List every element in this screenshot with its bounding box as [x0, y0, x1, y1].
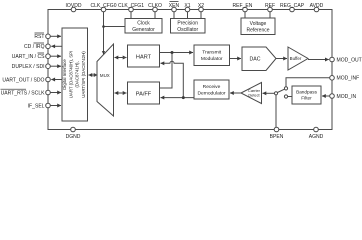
wire CLK_CFG1 stub [130, 12, 132, 19]
amp Buffer [288, 47, 308, 70]
wire MOD_IN to Bandpass Filter [322, 95, 330, 97]
svg-text:IOVDD: IOVDD [66, 3, 82, 9]
svg-text:UART_IN / CS: UART_IN / CS [12, 54, 45, 60]
svg-text:XEN: XEN [169, 3, 180, 9]
svg-text:IF_SEL: IF_SEL [28, 103, 45, 109]
wire X2 stub [200, 12, 202, 19]
svg-text:UART_OUT / SDO: UART_OUT / SDO [2, 77, 44, 83]
wire Carrier Detect to Receive Demodulator [230, 92, 241, 94]
pin IF_SEL [46, 103, 51, 108]
pin AGND [314, 127, 319, 132]
wire RST input [50, 35, 61, 37]
wire UART_OUT/SDO output [51, 79, 62, 81]
block PA/FF modem [128, 82, 160, 104]
svg-text:Demodulator: Demodulator [198, 90, 226, 96]
junction dots [102, 25, 185, 99]
block Precision Oscillator [171, 19, 206, 34]
wire DAC to Buffer [276, 58, 287, 60]
wire DUPLEX/SDI input [50, 65, 61, 67]
pin BPEN [274, 127, 279, 132]
junction TX bus [171, 51, 174, 54]
svg-text:Reference: Reference [246, 28, 269, 34]
wire XEN stub [173, 12, 175, 19]
pin CLKO [153, 7, 158, 12]
svg-text:BPEN: BPEN [270, 134, 284, 139]
pin REG_CAP [290, 7, 295, 12]
svg-text:REG_CAP: REG_CAP [280, 3, 305, 9]
pin REF [268, 7, 273, 12]
svg-text:Generator: Generator [132, 27, 155, 33]
svg-text:Oscillator: Oscillator [177, 27, 198, 33]
wire MUX to PA/FF bidirectional [115, 92, 127, 94]
wire RX from demodulator to PA/FF [161, 97, 195, 99]
svg-text:Clock: Clock [137, 21, 150, 27]
wire BPEN control to switch pole [275, 95, 277, 127]
wire Buffer to MOD_OUT [308, 59, 329, 61]
svg-text:UART_RTS / SCLK: UART_RTS / SCLK [1, 90, 45, 96]
svg-text:X2: X2 [198, 3, 204, 9]
wire RX branch up to HART [161, 61, 184, 97]
pin RST [46, 34, 51, 39]
pin MOD_IN [330, 94, 335, 99]
pin circles [46, 7, 335, 132]
svg-text:REF: REF [265, 3, 275, 9]
wire Bandpass Filter output to switch bottom contact [288, 96, 292, 98]
svg-text:Transmit: Transmit [202, 50, 221, 56]
svg-text:X1: X1 [184, 3, 190, 9]
switch contact top [284, 87, 287, 90]
wire IF_SEL input [50, 105, 61, 107]
block Receive Demodulator [194, 80, 229, 99]
svg-text:PA/FF: PA/FF [136, 91, 152, 97]
svg-text:RST: RST [34, 34, 44, 40]
pin UART_RTS/SCLK [46, 90, 51, 95]
svg-text:CLKO: CLKO [148, 3, 162, 9]
wire MUX to HART bidirectional [115, 57, 127, 59]
svg-text:REF_EN: REF_EN [233, 3, 253, 9]
svg-text:Bandpass: Bandpass [296, 89, 318, 94]
svg-text:Precision: Precision [177, 21, 198, 27]
pin DGND [71, 127, 76, 132]
outer boundary box [48, 10, 332, 130]
pin MOD_INF [330, 76, 335, 81]
mux MUX [97, 44, 114, 116]
dac DAC pentagon [242, 47, 276, 71]
svg-text:UART/SPI (DAC8742H): UART/SPI (DAC8742H) [81, 51, 86, 98]
junction CLK_CFG0 [102, 25, 105, 28]
pin IOVDD [71, 7, 76, 12]
svg-text:DGND: DGND [66, 134, 81, 139]
wire MOD_INF to switch top contact [286, 78, 330, 87]
wire PA/FF TX joins bus with hop over RX line [160, 53, 173, 89]
svg-text:CLK_CFG1: CLK_CFG1 [118, 3, 144, 9]
pin X2 [199, 7, 204, 12]
block HART modem [128, 45, 160, 67]
svg-text:MOD_INF: MOD_INF [337, 76, 360, 82]
svg-text:Buffer: Buffer [290, 56, 302, 61]
pin MOD_OUT [330, 57, 335, 62]
wire UART_IN/CS input [50, 55, 61, 57]
block Digital Interface U1 [62, 28, 88, 121]
wire UART_RTS/SCLK input [50, 92, 61, 94]
wire Transmit Modulator to DAC [230, 58, 242, 60]
wire CLKO stub [154, 12, 156, 19]
comparator Carrier Detect [241, 83, 262, 104]
switch contact bottom [284, 95, 287, 98]
wire CD/IRQ output [51, 45, 62, 47]
svg-text:DAC: DAC [250, 56, 261, 62]
switch pole [274, 92, 277, 95]
pin AVDD [314, 7, 319, 12]
svg-text:MUX: MUX [100, 73, 110, 78]
svg-text:Detect: Detect [248, 93, 260, 98]
pin CD/IRQ [46, 44, 51, 49]
svg-text:MOD_OUT: MOD_OUT [337, 57, 362, 63]
block Transmit Modulator [194, 45, 230, 66]
pin UART_OUT/SDO [46, 77, 51, 82]
svg-text:Receive: Receive [203, 84, 221, 90]
svg-text:Digital Interface: Digital Interface [62, 59, 67, 90]
text Digital Interface rotated [62, 51, 86, 99]
svg-text:AVDD: AVDD [310, 3, 324, 9]
svg-text:Voltage: Voltage [250, 21, 267, 27]
pin CLK_CFG0 [101, 7, 106, 12]
svg-text:MOD_IN: MOD_IN [337, 94, 357, 100]
wire CLK_CFG0 to clock generator and MUX select [103, 12, 105, 54]
pin REF_EN [243, 7, 248, 12]
pin CLK_CFG1 [129, 7, 134, 12]
wire switch pole to Carrier Detect [263, 92, 275, 94]
svg-text:CLK_CFG0: CLK_CFG0 [90, 3, 116, 9]
pin DUPLEX/SDI [46, 64, 51, 69]
pin XEN [172, 7, 177, 12]
wire REF_EN stub [244, 12, 246, 18]
svg-text:Modulator: Modulator [201, 56, 223, 62]
block texts [62, 21, 318, 101]
svg-text:AGND: AGND [309, 134, 324, 139]
svg-text:CD / IRQ: CD / IRQ [24, 44, 45, 50]
pin UART_IN/CS [46, 54, 51, 59]
block Bandpass Filter [292, 86, 321, 104]
svg-text:DUPLEX / SDI: DUPLEX / SDI [12, 64, 45, 70]
block Voltage Reference [241, 18, 275, 35]
wire DI to MUX bidirectional [89, 74, 98, 76]
pin X1 [185, 7, 190, 12]
block Clock Generator [125, 19, 162, 34]
svg-text:(DAC8741H),: (DAC8741H), [75, 61, 80, 87]
wire X1 stub [187, 12, 189, 19]
wire REF stub [269, 12, 271, 18]
svg-text:Filter: Filter [301, 96, 312, 101]
junction RX bus [182, 96, 185, 99]
wire HART TX to Transmit Modulator [160, 52, 194, 54]
svg-text:UART (DAC8740H), SPI: UART (DAC8740H), SPI [68, 51, 73, 99]
switch blade [277, 89, 284, 92]
svg-text:HART: HART [136, 54, 152, 60]
